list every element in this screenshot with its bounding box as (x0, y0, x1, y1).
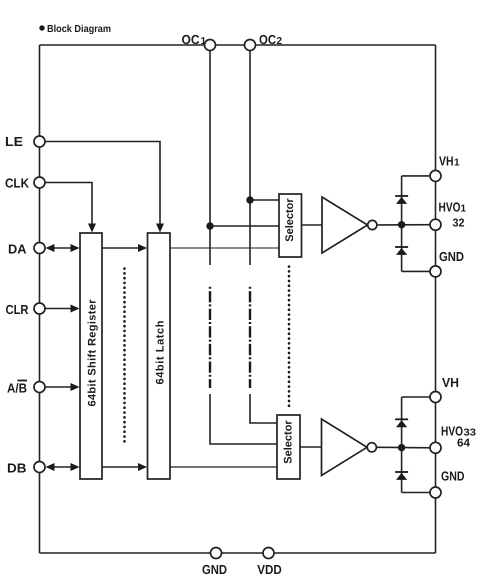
wire CLK to shift register clock (45, 183, 92, 227)
pin CLR (34, 303, 45, 314)
svg-text:Selector: Selector (283, 420, 295, 464)
svg-text:GND: GND (441, 469, 465, 484)
wire VH stub (402, 396, 431, 398)
svg-text:VDD: VDD (257, 562, 282, 577)
diode D4 (to GND, bottom section) (395, 471, 408, 473)
wire OC1 vertical (upper solid) (209, 45, 211, 265)
block 64bit latch (148, 233, 171, 479)
svg-text:32: 32 (453, 218, 465, 230)
wire DB to shift register (bidirectional) (52, 466, 73, 468)
junction bottom output node (398, 444, 405, 451)
wire top selector to buffer (302, 224, 323, 226)
wire OC1 vertical lower to bottom selector (210, 394, 277, 444)
svg-text:CLK: CLK (5, 176, 30, 191)
wire OC2 vertical lower to bottom selector (250, 394, 277, 423)
junction OC2 to top selector (246, 196, 253, 203)
svg-text:VH: VH (439, 154, 454, 169)
pin VH1 (430, 170, 441, 181)
title bullet (39, 25, 44, 30)
svg-text:2: 2 (277, 36, 283, 47)
svg-text:64bit Shift Register: 64bit Shift Register (87, 299, 99, 407)
pin GND (bottom section) (430, 487, 441, 498)
wire buffer U2 output to HVO33 (377, 446, 431, 449)
wire OC2 junction to top selector (250, 199, 279, 201)
wire OC1 junction to top selector (210, 225, 279, 227)
wire top bus (40, 44, 436, 46)
wire shift register to latch (top data) (102, 247, 141, 249)
pin HVO33 (430, 442, 441, 453)
wire GND stub (top section) (402, 270, 431, 272)
wire GND stub (bottom section) (402, 492, 431, 494)
buffer U1 (inverting) (322, 197, 368, 253)
pin OC1 (205, 40, 216, 51)
wire VH1 stub (402, 175, 431, 177)
pin VDD (263, 548, 274, 559)
pin LE (34, 136, 45, 147)
svg-text:1: 1 (461, 204, 467, 215)
junction OC1 to top selector (206, 222, 213, 229)
svg-text:1: 1 (454, 158, 460, 169)
svg-text:GND: GND (202, 562, 227, 577)
wire OC1 dash-dot middle (209, 287, 211, 388)
svg-text:GND: GND (439, 249, 464, 264)
svg-text:VH: VH (442, 375, 459, 390)
wire CLR to shift register (45, 308, 73, 310)
pin GND (bottom bus) (211, 548, 222, 559)
wire buffer U1 output to HVO1 (377, 224, 430, 226)
pin CLK (34, 177, 45, 188)
diode D2 (to GND, top section) (395, 246, 408, 248)
wire right bus (435, 45, 437, 553)
svg-text:64: 64 (457, 438, 471, 450)
svg-text:64bit Latch: 64bit Latch (155, 320, 167, 384)
pin DA (34, 243, 45, 254)
svg-text:DB: DB (7, 461, 27, 476)
diode D1 (to VH1) (395, 195, 408, 197)
dotted continuation between selectors (288, 267, 291, 409)
wire top clamp branch vertical (401, 176, 403, 272)
pin A/B (34, 382, 45, 393)
wire left bus (39, 45, 41, 553)
diode D3 (to VH) (395, 418, 408, 420)
svg-text:A/B: A/B (7, 381, 27, 396)
svg-text:DA: DA (8, 242, 27, 257)
wire OC2 vertical (upper solid) (249, 45, 251, 265)
pin OC2 (245, 40, 256, 51)
wire A/B to shift register (45, 386, 73, 388)
buffer U2 (inverting) (322, 419, 368, 476)
wire latch to top selector (170, 247, 279, 249)
block selector bottom (277, 415, 300, 479)
dotted continuation between shift register and latch (123, 269, 126, 446)
wire bottom clamp branch vertical (401, 397, 403, 493)
wire shift register to latch (bottom data) (102, 466, 141, 468)
svg-text:HVO: HVO (439, 200, 461, 215)
block selector top (279, 194, 302, 257)
svg-text:Block Diagram: Block Diagram (47, 24, 111, 35)
svg-text:CLR: CLR (6, 302, 30, 317)
svg-text:LE: LE (5, 134, 23, 149)
wire latch to bottom selector (170, 466, 277, 468)
block 64bit shift register (80, 233, 102, 479)
pin HVO1 (430, 219, 441, 230)
svg-text:OC: OC (182, 32, 201, 47)
wire OC2 dash-dot middle (249, 287, 251, 388)
pin GND (top section) (430, 266, 441, 277)
junction top output node (398, 221, 405, 228)
wire DA to shift register (bidirectional) (52, 247, 73, 249)
wire bottom selector to buffer (300, 446, 322, 448)
pin DB (34, 462, 45, 473)
wire LE to latch clock (45, 142, 160, 227)
svg-text:HVO: HVO (441, 424, 463, 439)
pin VH (430, 392, 441, 403)
svg-text:1: 1 (201, 36, 207, 47)
svg-text:Selector: Selector (284, 198, 296, 242)
svg-text:OC: OC (259, 32, 277, 47)
wire bottom bus (40, 552, 436, 554)
